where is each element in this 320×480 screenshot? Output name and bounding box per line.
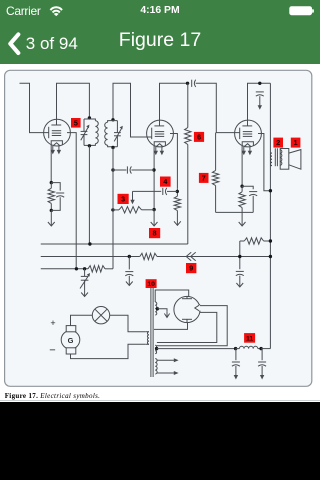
svg-text:+: + [50, 318, 55, 328]
svg-text:−: − [49, 345, 55, 357]
svg-text:10: 10 [147, 281, 155, 288]
svg-text:1: 1 [294, 138, 298, 147]
svg-text:11: 11 [246, 336, 253, 343]
svg-text:6: 6 [197, 133, 201, 142]
svg-text:9: 9 [189, 264, 193, 273]
svg-text:8: 8 [153, 229, 157, 238]
svg-text:3: 3 [121, 195, 125, 204]
svg-text:G: G [68, 336, 74, 345]
svg-text:2: 2 [276, 138, 280, 147]
svg-text:5: 5 [74, 118, 78, 127]
svg-text:7: 7 [202, 174, 206, 183]
